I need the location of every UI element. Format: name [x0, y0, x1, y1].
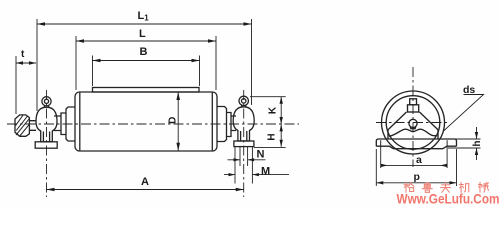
arrow L1 right [244, 22, 252, 26]
arrow B left [93, 59, 101, 63]
watermark [397, 191, 500, 207]
dim A line [47, 189, 244, 191]
arrow h top [475, 132, 478, 139]
ds leader underline [444, 95, 484, 132]
right bracket foot [234, 141, 254, 147]
dim N lines [228, 159, 266, 161]
dim a line [381, 164, 447, 166]
end view horizontal centerline [376, 122, 450, 124]
arrowheads left view [16, 22, 283, 191]
dim H bottom extension [254, 147, 286, 149]
arrow H top [280, 124, 283, 131]
arrow L right [208, 39, 216, 43]
char ge 格 [404, 182, 414, 192]
arrow K bottom [280, 117, 283, 124]
arrow B right [192, 59, 200, 63]
arrow M right [252, 173, 259, 176]
labels left view [21, 10, 279, 188]
shaft keyhole [409, 119, 417, 127]
dim M lines [224, 174, 289, 176]
arrow H bottom [280, 140, 283, 147]
left hatched knob [15, 115, 29, 136]
svg-text:L1: L1 [138, 10, 150, 23]
bracket strap right slope [420, 112, 439, 139]
left bearing bracket housing [36, 107, 57, 142]
labels right view [414, 84, 484, 183]
dim h extension lines [448, 139, 481, 148]
drum end cap line left [79, 93, 81, 151]
svg-text:N: N [257, 149, 265, 161]
arrow M left [229, 173, 236, 176]
dim B line [93, 60, 200, 62]
arrow N left [234, 158, 241, 161]
svg-text:a: a [416, 154, 422, 166]
svg-text:Www.GeLufu.Com: Www.GeLufu.Com [397, 191, 500, 207]
bracket strap left slope [388, 112, 407, 139]
dim L1 extension lines [37, 19, 252, 111]
svg-text:B: B [140, 46, 148, 58]
dim p line [376, 182, 456, 184]
dim h arrows stems [476, 127, 478, 160]
svg-text:K: K [268, 106, 279, 114]
bolt hole mark right [446, 140, 448, 145]
drum body [75, 92, 217, 151]
arrow a left [381, 164, 388, 167]
char lu 鲁 [422, 183, 432, 192]
left bracket clamp lines [43, 132, 49, 142]
svg-text:t: t [21, 49, 25, 60]
dim K line [280, 97, 282, 124]
dim L1 line [37, 23, 252, 25]
dim L extension lines [76, 36, 216, 90]
arrow N right [248, 158, 255, 161]
M extension lines under right foot [235, 147, 252, 184]
right bracket clamp lines [241, 131, 247, 141]
top stud ds [410, 99, 417, 105]
top nut [408, 105, 419, 112]
wire: main horizontal centerline of pulley [7, 123, 299, 125]
knob hatching [16, 115, 30, 136]
char xie 械 [478, 182, 488, 192]
dim D line [177, 92, 179, 151]
svg-text:D: D [167, 117, 178, 124]
svg-text:A: A [141, 176, 149, 188]
dim t extension line [15, 56, 17, 114]
char ji 机 [459, 182, 469, 192]
arrow D bottom [176, 143, 180, 151]
arrow L1 left [37, 22, 45, 26]
dim K extension line [250, 96, 286, 98]
left shaft [54, 116, 61, 131]
svg-text:p: p [414, 171, 420, 183]
bolt hole mark left [380, 140, 382, 145]
dim L line [76, 40, 216, 42]
svg-text:H: H [267, 133, 278, 140]
arrow A left [47, 188, 55, 192]
svg-text:ds: ds [463, 84, 475, 96]
arrow t left [16, 61, 23, 64]
belt lagging strip B [93, 88, 200, 93]
dim H line [280, 124, 282, 147]
arrow p right [450, 181, 457, 184]
bracket wavy profile (M-shaped) [389, 129, 437, 136]
right shaft step [227, 113, 232, 137]
dim B extension lines [93, 56, 200, 87]
left grease cup [42, 97, 51, 106]
arrow t right [29, 61, 36, 64]
wire: right bracket vertical centerline [243, 90, 245, 197]
arrow a right [440, 164, 447, 167]
right bearing bracket housing [233, 107, 254, 141]
arrow h bottom [475, 148, 478, 155]
char fu 夫 [441, 182, 451, 192]
svg-text:L: L [139, 28, 146, 40]
right cup neck [242, 105, 246, 107]
end view vertical centerline [412, 67, 414, 167]
watermark chinese (vector strokes) [404, 182, 488, 192]
dim t line [16, 62, 36, 64]
dim p extension lines [376, 149, 456, 186]
left cup neck [44, 106, 48, 108]
arrow L left [76, 39, 84, 43]
left shaft flange [66, 107, 75, 141]
end view inner circle [386, 96, 440, 150]
right shaft [231, 116, 236, 131]
arrow D top [176, 92, 180, 100]
left bracket foot [35, 142, 57, 148]
right shaft flange [217, 107, 227, 142]
arrow K top [280, 97, 283, 104]
left shaft step [61, 113, 66, 135]
knob stud [29, 121, 36, 131]
wire: left bracket vertical centerline [46, 90, 48, 197]
dim a extension lines [381, 146, 447, 168]
svg-text:h: h [472, 140, 483, 146]
end view outer circle [382, 91, 445, 154]
N extension lines under right foot [240, 147, 248, 166]
drum end cap line right [211, 93, 213, 151]
right grease cup [239, 96, 248, 105]
arrow A right [236, 188, 244, 192]
arrowheads right view [376, 132, 478, 185]
base plate [376, 139, 456, 149]
svg-text:M: M [261, 166, 270, 178]
arrow p left [376, 181, 383, 184]
